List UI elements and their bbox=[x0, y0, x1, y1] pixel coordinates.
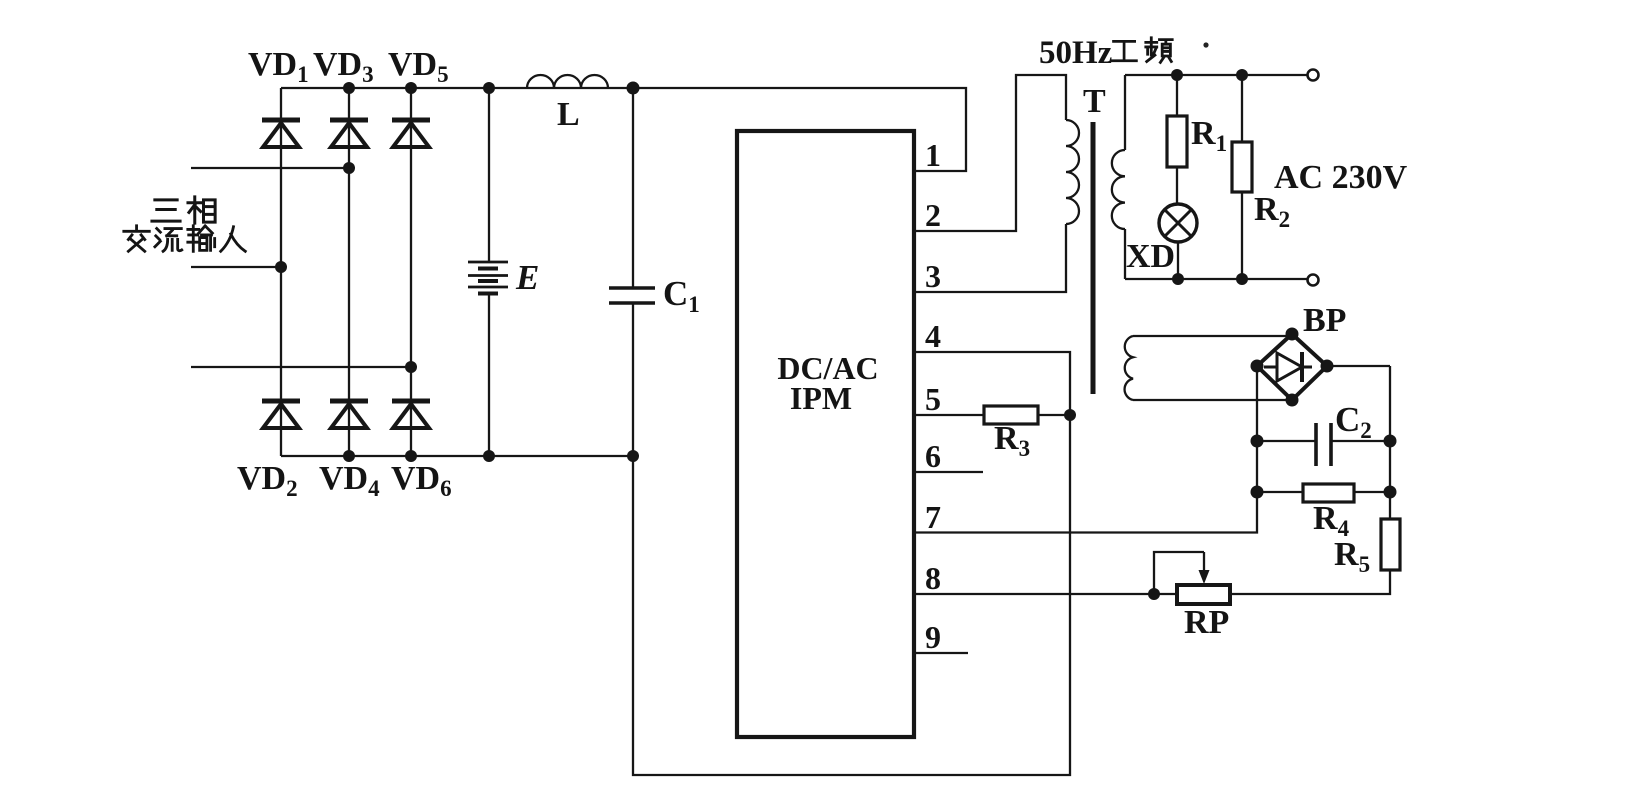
junction BP right corner bbox=[1321, 360, 1334, 373]
battery E bbox=[468, 262, 508, 294]
bridge rectifier BP bbox=[1257, 334, 1327, 400]
svg-text:E: E bbox=[515, 258, 539, 297]
diode VD5 bbox=[392, 120, 430, 147]
wire VD1 column bbox=[280, 88, 282, 456]
wire pin7 to bridge left bbox=[914, 366, 1257, 533]
svg-text:1: 1 bbox=[925, 137, 941, 173]
junction VD3 top bus bbox=[343, 82, 355, 94]
capacitor C1 bbox=[609, 288, 655, 303]
resistor R5 bbox=[1381, 519, 1400, 570]
junction VD4 bottom bus bbox=[343, 450, 355, 462]
transformer T primary winding bbox=[1066, 120, 1079, 224]
wire phase input C bbox=[191, 366, 411, 368]
wire phase input B bbox=[191, 266, 281, 268]
svg-text:L: L bbox=[557, 96, 580, 133]
resistor R2 bbox=[1232, 75, 1252, 279]
svg-text:4: 4 bbox=[925, 318, 941, 354]
resistor R4 bbox=[1257, 484, 1390, 502]
svg-text:BP: BP bbox=[1303, 302, 1346, 339]
transformer T secondary 2 bbox=[1125, 336, 1133, 400]
terminal top bbox=[1308, 70, 1319, 81]
IPM box U1 bbox=[737, 131, 914, 737]
svg-text:T: T bbox=[1083, 83, 1106, 120]
wire C1 column and bottom feedback loop bbox=[633, 88, 1070, 775]
wire pin6 stub bbox=[914, 471, 983, 473]
svg-text:50Hz: 50Hz bbox=[1039, 35, 1112, 71]
junction R2 bottom bbox=[1236, 273, 1248, 285]
wire pin5 to R3 bbox=[914, 414, 1070, 416]
svg-text:XD: XD bbox=[1126, 238, 1175, 275]
junction C1 bottom bus bbox=[627, 450, 639, 462]
terminal bottom bbox=[1308, 275, 1319, 286]
svg-text:9: 9 bbox=[925, 619, 941, 655]
junction R2 top bbox=[1236, 69, 1248, 81]
wire VD3 column bbox=[348, 88, 350, 456]
potentiometer RP bbox=[1154, 552, 1230, 604]
junction BP bottom corner bbox=[1286, 394, 1299, 407]
svg-text:2: 2 bbox=[925, 197, 941, 233]
wire secondary2 to bridge bottom bbox=[1133, 399, 1292, 401]
inductor L bbox=[527, 75, 608, 88]
wire pin9 stub bbox=[914, 652, 968, 654]
junction XD bottom bbox=[1172, 273, 1184, 285]
svg-text:7: 7 bbox=[925, 499, 941, 535]
junction BP left corner bbox=[1251, 360, 1264, 373]
diode VD3 bbox=[330, 120, 368, 147]
svg-text:IPM: IPM bbox=[790, 380, 852, 416]
wire lamp circuit bottom bbox=[1125, 278, 1307, 280]
wire pin3 to primary bottom bbox=[914, 224, 1066, 292]
svg-text:6: 6 bbox=[925, 438, 941, 474]
wire phase input A bbox=[191, 167, 349, 169]
resistor R3 bbox=[984, 406, 1038, 424]
junction R1 top bbox=[1171, 69, 1183, 81]
capacitor C2 bbox=[1257, 423, 1390, 466]
svg-text:RP: RP bbox=[1184, 604, 1229, 641]
junction phase B bbox=[275, 261, 287, 273]
resistor R1 bbox=[1167, 75, 1187, 204]
svg-text:8: 8 bbox=[925, 560, 941, 596]
junction battery top bus bbox=[483, 82, 495, 94]
junction BP top corner bbox=[1286, 328, 1299, 341]
wire lamp circuit top bbox=[1125, 74, 1307, 76]
junction VD6 bottom bus bbox=[405, 450, 417, 462]
transformer T core bbox=[1091, 122, 1096, 394]
label 三相 bbox=[152, 197, 215, 223]
junction battery bottom bus bbox=[483, 450, 495, 462]
svg-text:AC 230V: AC 230V bbox=[1274, 159, 1408, 196]
svg-text:3: 3 bbox=[925, 258, 941, 294]
wire pin8 to RP row bbox=[914, 570, 1390, 594]
wire bridge right column bbox=[1327, 366, 1390, 519]
junction phase C bbox=[405, 361, 417, 373]
junction R4 right bbox=[1384, 486, 1397, 499]
diode VD2 bbox=[262, 401, 300, 428]
diode VD6 bbox=[392, 401, 430, 428]
label 50Hz工频 bbox=[1039, 35, 1172, 71]
wire battery column bbox=[488, 88, 490, 456]
junction C1 top bus bbox=[627, 82, 640, 95]
junction phase A bbox=[343, 162, 355, 174]
speck artifact bbox=[1203, 42, 1208, 47]
junction VD5 top bus bbox=[405, 82, 417, 94]
wire top DC+ bus with pin1 riser bbox=[281, 88, 966, 171]
lamp XD bbox=[1159, 204, 1197, 279]
junction RP wiper node bbox=[1148, 588, 1160, 600]
wire secondary2 to bridge top bbox=[1133, 335, 1292, 337]
diode VD1 bbox=[262, 120, 300, 147]
transformer T secondary 1 bbox=[1112, 75, 1125, 279]
svg-text:5: 5 bbox=[925, 381, 941, 417]
junction C2 left bbox=[1251, 435, 1264, 448]
junction R3 node bbox=[1064, 409, 1076, 421]
junction C2 right bbox=[1384, 435, 1397, 448]
diode VD4 bbox=[330, 401, 368, 428]
wire pin2 to primary top bbox=[914, 75, 1066, 231]
junction R4 left bbox=[1251, 486, 1264, 499]
wire bottom DC- bus bbox=[281, 455, 633, 457]
wire pin4 riser bbox=[914, 352, 1070, 415]
label 交流输入 bbox=[124, 226, 245, 251]
wire VD5 column bbox=[410, 88, 412, 456]
